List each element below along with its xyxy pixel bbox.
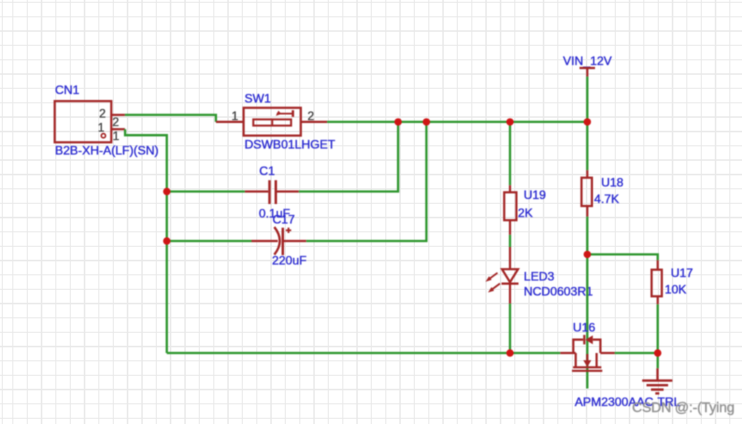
svg-text:CN1: CN1 bbox=[55, 83, 80, 97]
junction dot bottom rail/U17 bbox=[654, 349, 661, 356]
svg-text:1: 1 bbox=[232, 109, 239, 123]
SW1 pin 2 stub bbox=[301, 121, 327, 123]
ground bbox=[642, 368, 672, 393]
CN1 pin 1 stub bbox=[111, 128, 125, 130]
junction dot bottom rail/LED3 bbox=[506, 349, 513, 356]
LED LED3 bbox=[486, 247, 519, 304]
wire C1 left bbox=[167, 190, 245, 192]
wire VIN_12V to rail bbox=[586, 77, 588, 122]
svg-text:2: 2 bbox=[308, 109, 315, 123]
junction dot left bus/C17 bbox=[163, 237, 170, 244]
wire bottom rail right bbox=[615, 352, 658, 354]
connector CN1 body bbox=[55, 101, 112, 142]
svg-text:U19: U19 bbox=[524, 188, 547, 202]
capacitor C1 bbox=[245, 180, 299, 204]
svg-text:10K: 10K bbox=[665, 283, 687, 297]
CN1 pin1 indicator circle bbox=[101, 134, 105, 138]
svg-text:2: 2 bbox=[112, 115, 119, 129]
svg-text:B2B-XH-A(LF)(SN): B2B-XH-A(LF)(SN) bbox=[55, 144, 159, 158]
wire node to ground bbox=[657, 353, 659, 368]
wire rail to U18 bbox=[586, 122, 588, 170]
CN1 pin 2 stub bbox=[111, 114, 125, 116]
wire C17 right up to rail bbox=[306, 122, 426, 241]
svg-text:1: 1 bbox=[113, 129, 120, 143]
svg-text:C17: C17 bbox=[273, 213, 296, 227]
svg-text:CSDN @:-(Tying: CSDN @:-(Tying bbox=[632, 399, 734, 415]
svg-text:C1: C1 bbox=[259, 164, 275, 178]
wire C1 right up to rail bbox=[299, 122, 398, 192]
wire CN1.1 down-left bus bbox=[125, 129, 167, 353]
wire U18 to node bbox=[586, 217, 588, 255]
svg-text:4.7K: 4.7K bbox=[594, 192, 619, 206]
wire U17 to bottom rail bbox=[657, 304, 659, 353]
wire top rail bbox=[327, 121, 587, 123]
svg-text:2K: 2K bbox=[518, 206, 533, 220]
svg-text:U18: U18 bbox=[601, 176, 624, 190]
svg-text:U17: U17 bbox=[671, 266, 694, 280]
wire LED3 to bottom rail bbox=[509, 304, 511, 353]
wire node to U17 bbox=[587, 254, 657, 260]
wire U19 to LED3 bbox=[509, 235, 511, 247]
wire C17 left bbox=[167, 240, 252, 242]
junction dot rail/C17 bbox=[423, 118, 430, 125]
resistor U17 bbox=[652, 260, 662, 304]
SW1 pin 1 stub bbox=[216, 121, 244, 123]
switch SW1 body bbox=[244, 108, 301, 136]
wire rail to U19 bbox=[509, 122, 511, 185]
svg-text:SW1: SW1 bbox=[245, 91, 272, 105]
svg-text:2: 2 bbox=[99, 107, 106, 121]
wire CN1.2 to SW1.1 bbox=[125, 115, 216, 122]
svg-text:U16: U16 bbox=[573, 321, 596, 335]
junction dot rail/VIN bbox=[584, 118, 591, 125]
capacitor C17 (polarized) bbox=[252, 227, 307, 255]
svg-text:1: 1 bbox=[98, 120, 105, 134]
mosfet U16 bbox=[560, 335, 614, 371]
svg-text:DSWB01LHGET: DSWB01LHGET bbox=[245, 138, 336, 152]
svg-text:220uF: 220uF bbox=[272, 254, 307, 268]
VIN_12V pin tick bbox=[580, 68, 596, 77]
junction dot rail/C1 bbox=[394, 118, 401, 125]
resistor U19 bbox=[504, 185, 516, 235]
svg-text:VIN_12V: VIN_12V bbox=[563, 54, 613, 68]
junction dot rail/U19 bbox=[506, 118, 513, 125]
wire bottom rail left bbox=[167, 352, 561, 354]
svg-text:NCD0603R1: NCD0603R1 bbox=[524, 284, 593, 298]
resistor U18 bbox=[582, 170, 592, 216]
svg-text:LED3: LED3 bbox=[524, 270, 555, 284]
wire gate vertical through U16 bbox=[586, 254, 588, 388]
junction dot divider node bbox=[584, 251, 591, 258]
junction dot left bus/C1 bbox=[163, 188, 170, 195]
